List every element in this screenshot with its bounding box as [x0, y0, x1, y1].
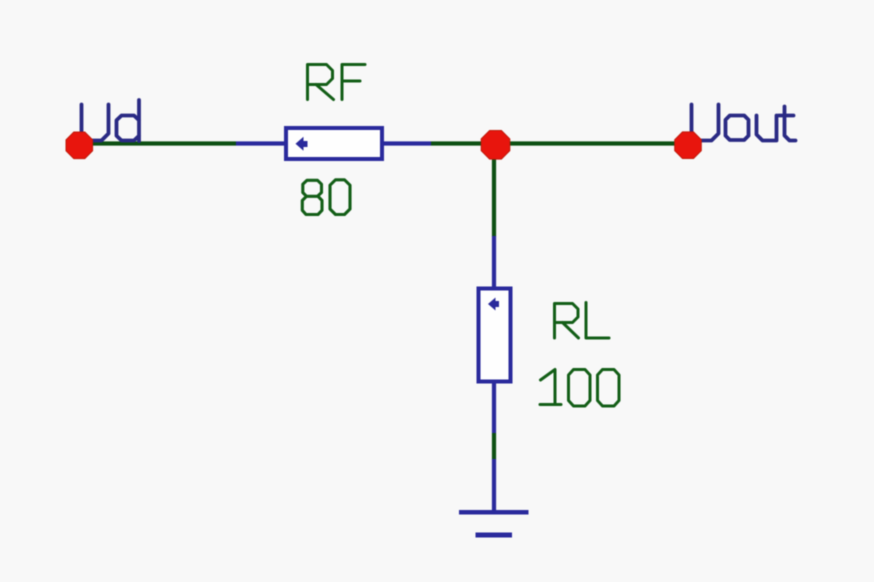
- node Uout: [675, 132, 702, 159]
- wire RF pin 2 stub (blue): [382, 141, 431, 145]
- wire net Ud to RF (green): [80, 141, 236, 145]
- wire ground pin stub (blue): [492, 459, 496, 511]
- name label RF: [308, 65, 366, 100]
- node junction: [481, 131, 510, 160]
- resistor RL: [479, 289, 511, 382]
- value label 80: [302, 180, 350, 215]
- ground: [459, 512, 529, 535]
- name label RL: [555, 303, 610, 339]
- node Ud: [66, 132, 93, 159]
- wire net junction down (green): [492, 158, 496, 237]
- wire net RF to Uout (green): [431, 141, 688, 145]
- wire RF pin 1 stub (blue): [236, 141, 286, 145]
- resistor RF: [286, 128, 382, 159]
- value label 100: [540, 370, 619, 407]
- label Ud: [82, 100, 140, 141]
- wire RL pin 2 stub (blue): [492, 382, 496, 433]
- label Uout: [692, 105, 796, 141]
- wire net RL to ground (green): [492, 433, 496, 460]
- wire RL pin 1 stub (blue): [492, 236, 496, 288]
